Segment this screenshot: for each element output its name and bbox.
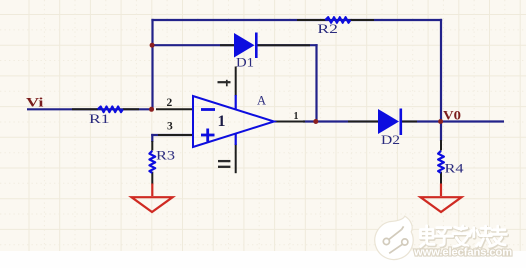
svg-text:3: 3 (167, 121, 173, 133)
svg-text:2: 2 (167, 97, 173, 109)
svg-text:1: 1 (294, 111, 299, 122)
svg-text:V0: V0 (443, 108, 461, 123)
svg-text:A: A (257, 94, 266, 108)
svg-text:R3: R3 (156, 148, 175, 163)
svg-text:R2: R2 (317, 21, 338, 36)
svg-text:D1: D1 (236, 55, 254, 70)
svg-text:1: 1 (218, 113, 226, 130)
svg-text:R1: R1 (89, 111, 110, 126)
svg-text:R4: R4 (445, 161, 465, 176)
svg-text:Vi: Vi (26, 95, 44, 110)
svg-text:D2: D2 (381, 132, 400, 147)
svg-text:www.elecfans.com: www.elecfans.com (413, 247, 512, 259)
